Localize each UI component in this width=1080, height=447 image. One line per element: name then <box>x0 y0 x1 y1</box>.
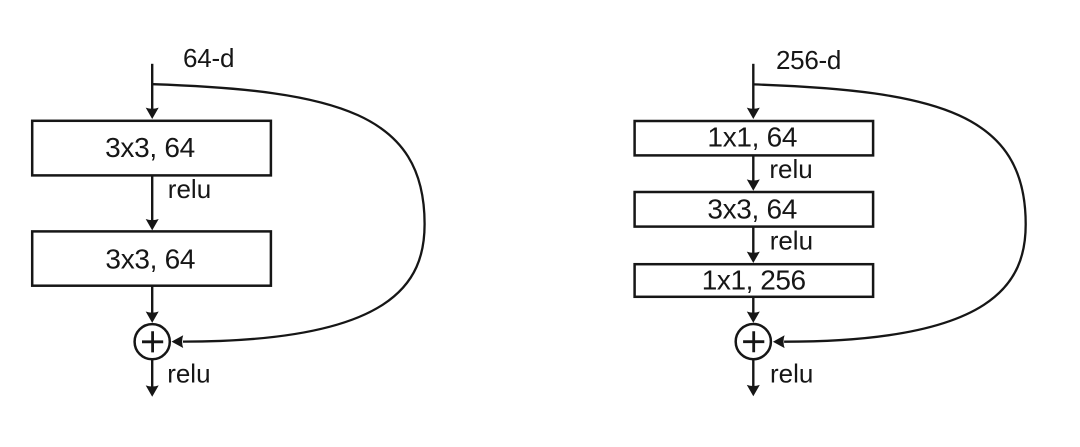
arrowhead output left <box>146 385 159 396</box>
box conv1x1b 1x1,256 <box>635 264 874 297</box>
box conv1x1a 1x1,64 <box>635 121 874 155</box>
adder circle right <box>736 324 771 359</box>
svg-text:256-d: 256-d <box>776 45 841 75</box>
svg-text:relu: relu <box>168 174 211 204</box>
arrowhead skip into adder left <box>172 335 184 348</box>
arrowhead into conv3x3 <box>747 179 760 190</box>
wire input right <box>752 64 754 112</box>
arrowhead output right <box>747 385 760 396</box>
skip connection left (identity shortcut) <box>153 84 425 341</box>
svg-text:relu: relu <box>167 358 210 388</box>
svg-text:1x1, 256: 1x1, 256 <box>702 265 806 296</box>
wire conv3x3 to conv1x1b <box>752 227 754 254</box>
arrowhead into conv2 <box>146 219 159 230</box>
arrowhead input into conv1x1a <box>747 108 760 119</box>
wire adder to output right <box>752 359 754 387</box>
wire conv2 to adder <box>151 286 153 316</box>
wire conv1x1b to adder <box>752 297 754 316</box>
wire adder to output left <box>151 359 153 387</box>
box conv1 3x3,64 <box>32 121 271 176</box>
plus sign left <box>142 331 163 352</box>
box conv3x3 3x3,64 <box>635 192 874 227</box>
svg-text:relu: relu <box>770 358 813 388</box>
box conv2 3x3,64 <box>32 231 271 285</box>
plus sign right <box>743 331 764 352</box>
arrowhead input into conv1 <box>146 108 159 119</box>
wire conv1x1a to conv3x3 <box>752 155 754 182</box>
svg-text:relu: relu <box>770 226 813 256</box>
svg-text:64-d: 64-d <box>183 43 234 73</box>
arrowhead into adder left <box>146 312 159 323</box>
wire conv1 to conv2 <box>151 175 153 222</box>
svg-text:3x3, 64: 3x3, 64 <box>707 193 797 224</box>
svg-text:3x3, 64: 3x3, 64 <box>105 243 195 274</box>
wire input left <box>151 64 153 112</box>
arrowhead into adder right <box>747 312 760 323</box>
arrowhead into conv1x1b <box>747 252 760 263</box>
svg-text:3x3, 64: 3x3, 64 <box>105 132 195 163</box>
adder circle left <box>135 324 170 359</box>
arrowhead skip into adder right <box>773 335 785 348</box>
svg-text:relu: relu <box>769 154 812 184</box>
svg-text:1x1, 64: 1x1, 64 <box>707 121 797 152</box>
skip connection right (identity shortcut) <box>754 84 1026 341</box>
